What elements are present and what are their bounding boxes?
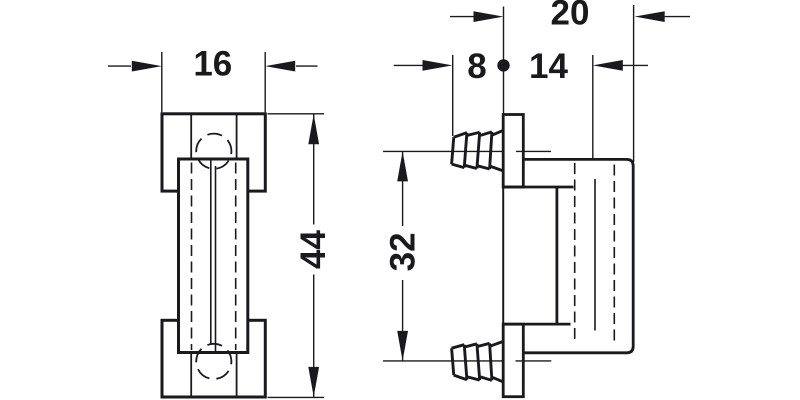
dimension 32 top arrow (397, 151, 408, 181)
dimension extension line at panel face (503, 7, 505, 115)
dimension 32 line upper segment (402, 151, 404, 226)
hidden edge line right in grip (235, 163, 237, 351)
dimension 16 right arrow (265, 61, 295, 72)
dimension 8 extension line at dowel tip (452, 55, 454, 136)
hidden dowel circle bottom (196, 344, 231, 379)
top post inner edge right (236, 114, 238, 191)
dimension 32 line lower segment (402, 280, 404, 361)
dimension 44 line upper segment (313, 114, 315, 224)
top post inner edge left (190, 114, 192, 191)
bottom dowel centerline tick through plate (516, 360, 552, 362)
grip seam line left (210, 161, 212, 345)
svg-text:44: 44 (294, 230, 333, 269)
dimension 16 left tail (108, 65, 131, 67)
hidden edge line left in grip (191, 163, 193, 351)
grip bar left edge (side view) (556, 187, 559, 324)
bottom mounting plate (side view) (503, 324, 523, 397)
dimension 32 bottom arrow (397, 331, 408, 361)
bottom mounting post (front view) (162, 320, 265, 397)
top ribbed dowel (452, 130, 504, 171)
dimension 16 extension line left (161, 52, 163, 112)
hidden edge dashed left in grip side (574, 163, 576, 344)
dimension 8 left arrow (423, 60, 453, 71)
dimension 8 left tail (394, 64, 424, 66)
dimension 14 extension line (592, 55, 594, 159)
svg-text:14: 14 (529, 47, 568, 86)
dimension 20 right tail (665, 16, 690, 18)
bottom post inner edge right (236, 320, 238, 397)
bottom arm upper edge (503, 323, 570, 326)
dimension 44 extension line bottom (268, 396, 325, 398)
top dowel centerline tick through plate (516, 150, 551, 152)
dimension 20 right arrow (635, 11, 665, 22)
dimension 14 right tail (623, 64, 649, 66)
grip bar outline (side view) (523, 159, 633, 352)
dimension 16 extension line right (264, 52, 266, 112)
grip bar (front view) (179, 159, 248, 353)
dimension 44 extension line top (268, 113, 325, 115)
shared dimension dot (497, 59, 509, 71)
bottom ribbed dowel (452, 341, 504, 382)
grip seam line right (215, 166, 217, 352)
svg-text:16: 16 (193, 45, 232, 84)
svg-text:20: 20 (551, 0, 590, 33)
hidden edge dashed right in grip side (613, 165, 615, 345)
top mounting plate (side view) (503, 115, 523, 188)
bottom dowel centerline (383, 360, 504, 362)
svg-text:8: 8 (467, 47, 486, 86)
bottom post inner edge left (190, 320, 192, 397)
dimension 20 left tail (450, 16, 474, 18)
dimension 44 bottom arrow (308, 367, 319, 397)
dimension 44 top arrow (308, 114, 319, 144)
panel face line between plates (502, 187, 504, 324)
top arm lower edge (503, 186, 573, 189)
dimension 14 right arrow (593, 60, 623, 71)
dimension 16 left arrow (132, 61, 162, 72)
dimension 44 line lower segment (313, 275, 315, 397)
top dowel centerline (383, 150, 504, 152)
svg-text:32: 32 (384, 232, 423, 271)
dimension 16 right tail (296, 65, 318, 67)
hidden dowel circle top (196, 134, 231, 169)
dimension 20 extension line right (633, 5, 635, 162)
top mounting post (front view) (162, 114, 265, 191)
dimension 20 left arrow (474, 11, 504, 22)
grip inner edge line (594, 179, 596, 331)
